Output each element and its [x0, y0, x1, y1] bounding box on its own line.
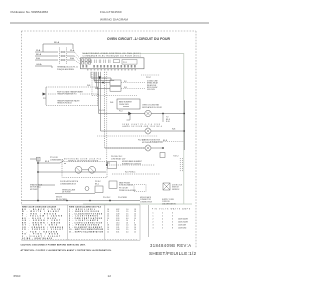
wire BK-B to bus — [150, 142, 184, 151]
connector pin 3 — [61, 55, 63, 57]
svg-text:12: 12 — [108, 274, 112, 278]
svg-text:1: 1 — [153, 213, 154, 215]
svg-text:P1-6 W-C: P1-6 W-C — [103, 197, 111, 199]
svg-text:8: 8 — [172, 225, 173, 227]
svg-text:12: 12 — [107, 231, 109, 233]
conv feed solid part — [105, 147, 145, 149]
bus drop dashed x92 — [91, 72, 93, 96]
fan junction arrow — [128, 112, 131, 116]
connector pin 1 — [61, 51, 63, 53]
transformer dash mid left — [48, 93, 56, 95]
EOC pin row labels — [82, 65, 135, 68]
neutral node 4 — [89, 200, 91, 202]
svg-text:P11: P11 — [43, 98, 46, 100]
transformer connector arrow — [43, 93, 47, 96]
svg-text:P1-4 Y-5: P1-4 Y-5 — [99, 110, 105, 112]
lock cam switch A — [75, 166, 82, 173]
node dot riser 1 — [37, 162, 39, 164]
svg-text:5: 5 — [162, 228, 163, 230]
EOC board box — [81, 58, 145, 69]
wire to lock motor — [38, 162, 60, 164]
lock link wire — [82, 169, 89, 171]
svg-text:5: 5 — [162, 225, 163, 227]
node dot hidden bake — [106, 164, 108, 166]
svg-text:8: 8 — [172, 228, 173, 230]
gauge rows text — [69, 209, 104, 234]
connector pin 6 — [64, 59, 66, 61]
fan drop wire — [162, 114, 164, 123]
cooling fan blades — [146, 112, 150, 116]
svg-text:3: 3 — [172, 213, 173, 215]
bus L2 node dot — [183, 113, 185, 115]
door switch stub — [30, 158, 37, 160]
svg-text:TOD L2: TOD L2 — [173, 156, 179, 158]
wire into lock box — [64, 163, 66, 165]
legend top rule — [21, 204, 140, 206]
svg-text:3.31: 3.31 — [116, 231, 119, 233]
svg-text:P3-2 BK-C W-C: P3-2 BK-C W-C — [111, 156, 123, 158]
DLB relay contact box 1 — [110, 80, 121, 85]
svg-text:WIRING DIAGRAM: WIRING DIAGRAM — [100, 18, 128, 22]
L2 bus dark segment — [183, 100, 185, 150]
lead diagonal 3 — [75, 60, 81, 64]
svg-text:6: 6 — [172, 222, 173, 224]
conv return labels — [111, 156, 126, 160]
door lock switch cross — [163, 183, 170, 190]
svg-text:D'ALIMENTATION: D'ALIMENTATION — [162, 203, 177, 206]
latch circle — [85, 187, 89, 191]
svg-text:6: 6 — [172, 219, 173, 221]
lock switch blade — [60, 161, 64, 163]
fan node dot right — [162, 113, 164, 115]
svg-text:COMMANDE ELECTRONIQUE DU FOUR: COMMANDE ELECTRONIQUE DU FOUR (EOC) — [83, 55, 141, 58]
svg-text:11 - SUPPLY/ALIMENTATION: 11 - SUPPLY/ALIMENTATION — [69, 230, 104, 233]
svg-text:VERROU DE PORTE MOTORISE: VERROU DE PORTE MOTORISE — [68, 161, 99, 163]
bulb filament — [146, 129, 150, 133]
hidden bake dashed row — [107, 164, 155, 166]
svg-text:240V 2500W: 240V 2500W — [178, 222, 188, 224]
lock cam A mark — [76, 168, 80, 172]
svg-text:31848409B REV:A: 31848409B REV:A — [150, 243, 191, 248]
svg-text:2: 2 — [153, 222, 154, 224]
svg-text:W-A: W-A — [70, 49, 75, 52]
svg-text:P/N VOLTS WATTS AMPS: P/N VOLTS WATTS AMPS — [152, 207, 191, 210]
bus wire 3 broil feed — [95, 72, 110, 83]
svg-text:120V 40W: 120V 40W — [178, 225, 186, 227]
lock cam B mark — [90, 168, 94, 172]
bus wire 5 fan — [99, 72, 145, 114]
dashed row 2 — [112, 173, 160, 175]
svg-text:PLAQUE A BORNES: PLAQUE A BORNES — [57, 68, 75, 71]
node dot riser 2 — [37, 171, 39, 173]
thermal fuse body a — [179, 158, 181, 172]
legend divider x104.5 — [104, 205, 106, 240]
wire lower row — [38, 171, 106, 173]
light wire right — [151, 130, 184, 132]
svg-text:P1-7: P1-7 — [103, 78, 106, 80]
legend divider x67.5 — [66, 205, 68, 240]
EOC relay contact ticks — [90, 60, 110, 64]
bus wire 4 broil return — [97, 72, 110, 89]
wire row R-A right — [67, 59, 75, 61]
svg-text:3: 3 — [172, 216, 173, 218]
EOC P1 sub-block — [122, 60, 137, 65]
light return dashed row — [97, 135, 158, 137]
oven chassis bottom light line — [83, 203, 192, 205]
right spec table left border — [148, 205, 150, 237]
bus wire 6 light — [101, 72, 145, 131]
svg-text:3: 3 — [153, 228, 154, 230]
DLB dashed lead 2 — [121, 88, 145, 90]
wire row BK-A mid right — [67, 55, 75, 57]
svg-text:GY/BK - GRAY/BLACK: GY/BK - GRAY/BLACK — [22, 237, 53, 240]
svg-text:4: 4 — [162, 222, 163, 224]
lead diagonal 2 — [75, 56, 81, 62]
svg-text:R-8: R-8 — [124, 81, 127, 83]
gauge numeric columns — [107, 209, 136, 234]
cooling fan motor — [145, 110, 151, 116]
wire L1 top — [43, 44, 73, 52]
transformer right lead — [97, 87, 99, 106]
svg-text:DOUBLE LINE: DOUBLE LINE — [147, 80, 158, 82]
fan wire right — [151, 113, 184, 115]
connector pin 2 — [64, 51, 66, 53]
lock cam switch B — [89, 166, 96, 173]
svg-text:R-A: R-A — [70, 57, 74, 60]
svg-text:TENSION P4 BK-B: TENSION P4 BK-B — [57, 103, 72, 105]
svg-text:OVEN CIRCUIT -1/ CIRCUIT DU FO: OVEN CIRCUIT -1/ CIRCUIT DU FOUR — [107, 37, 171, 41]
neutral node 1 — [37, 200, 39, 202]
svg-text:R-A: R-A — [36, 57, 40, 60]
EOC pin number fringe below — [87, 69, 136, 71]
svg-text:BK-C A TERM: BK-C A TERM — [56, 198, 67, 201]
svg-text:COMMUTATEUR: COMMUTATEUR — [50, 158, 64, 161]
svg-text:BK-A: BK-A — [36, 53, 42, 56]
probe box — [109, 181, 117, 188]
ground symbol chassis — [98, 76, 101, 79]
svg-text:ELEMENT DE CUISSON: ELEMENT DE CUISSON — [122, 163, 142, 165]
door switch component — [37, 157, 41, 161]
svg-text:1: 1 — [153, 216, 154, 218]
svg-text:3: 3 — [153, 225, 154, 227]
small comp box left — [108, 162, 117, 169]
dashed branch to right top — [141, 74, 160, 76]
svg-text:2: 2 — [162, 216, 163, 218]
neutral node 2 — [109, 200, 111, 202]
bus wire 8 dashed — [106, 72, 108, 165]
lead diagonal 1 — [75, 52, 81, 59]
svg-text:FGLGT3045KF: FGLGT3045KF — [100, 10, 122, 14]
color rows — [22, 208, 64, 240]
door lock switch box — [163, 183, 170, 190]
svg-text:12: 12 — [134, 231, 136, 233]
svg-text:ATTENTION: COUPEZ L'ALIMENTATI: ATTENTION: COUPEZ L'ALIMENTATION AVANT L… — [21, 249, 112, 252]
connector P1 left bracket — [59, 48, 61, 65]
ground wire GN — [35, 66, 52, 68]
light node dot — [183, 130, 185, 132]
svg-text:120V 60Hz: 120V 60Hz — [178, 228, 187, 230]
bus vertical broil a — [110, 78, 112, 80]
svg-text:P1-3: P1-3 — [119, 110, 122, 112]
bus wire 7 conv — [105, 72, 145, 148]
svg-text:LAMPE DU FOUR 40W 120V BK-6: LAMPE DU FOUR 40W 120V BK-6 — [122, 125, 162, 128]
svg-text:MOTEUR: MOTEUR — [30, 189, 38, 191]
svg-text:COMMUTATEUR DE: COMMUTATEUR DE — [60, 182, 77, 185]
svg-text:4.0: 4.0 — [126, 231, 128, 233]
connector pin 4 — [64, 55, 66, 57]
thermal fuse body b — [182, 158, 184, 172]
svg-text:GRIL 240V: GRIL 240V — [147, 89, 156, 91]
svg-text:240V 3400W: 240V 3400W — [178, 219, 188, 221]
svg-text:W-9: W-9 — [124, 87, 127, 89]
svg-text:W-C P6 BK-C: W-C P6 BK-C — [125, 172, 136, 174]
svg-text:CAUTION: DISCONNECT POWER BEFO: CAUTION: DISCONNECT POWER BEFORE SERVICI… — [21, 244, 86, 247]
bake relay box — [117, 99, 140, 109]
svg-text:BK-A: BK-A — [54, 41, 60, 44]
bus vertical broil b — [113, 79, 115, 82]
junction dot broil feed — [102, 82, 104, 84]
svg-text:CONNECTEUR: CONNECTEUR — [140, 202, 153, 204]
conv wire right — [151, 147, 163, 149]
motorized door lock dashed box — [62, 162, 107, 178]
legend bottom dashed rule — [21, 238, 138, 240]
wire row W-A — [35, 51, 58, 53]
bus wire 2 — [94, 72, 114, 81]
connector pin 5 — [61, 59, 63, 61]
legend divider x140 — [139, 205, 141, 240]
circuit boundary dashed top — [21, 30, 196, 32]
svg-text:SONDE A VIANDE: SONDE A VIANDE — [119, 184, 134, 187]
conv node dot — [162, 147, 164, 149]
bake relay mark — [123, 106, 129, 108]
svg-text:TRANSFORMATEUR H.V.: TRANSFORMATEUR H.V. — [57, 93, 77, 96]
svg-text:BROIL 3400W: BROIL 3400W — [147, 87, 158, 89]
circuit boundary dashed right — [195, 31, 197, 248]
latch wire row — [55, 193, 95, 195]
lock out wire — [106, 162, 110, 164]
circuit boundary dashed left — [20, 31, 22, 205]
svg-text:VENTILATEUR DU FOUR: VENTILATEUR DU FOUR — [142, 106, 162, 109]
connector P1 right bracket — [66, 48, 68, 65]
oven light bulb — [145, 128, 151, 134]
neutral node 3 — [66, 200, 68, 202]
EOC pin labels left column — [82, 59, 91, 64]
bus wire 1 — [91, 72, 111, 78]
svg-text:2: 2 — [162, 213, 163, 215]
svg-text:GN-A: GN-A — [36, 63, 42, 66]
svg-text:P2 R-7: P2 R-7 — [146, 77, 151, 79]
svg-text:ELECTRONIC OVEN CONTROL OF THE: ELECTRONIC OVEN CONTROL OF THE (EOC) — [83, 53, 141, 55]
svg-text:P1 L1: P1 L1 — [123, 62, 127, 64]
fan drop stub — [127, 114, 131, 121]
wire riser bottom turn — [38, 184, 55, 186]
wire row BK-A mid — [35, 55, 58, 57]
svg-text:2: 2 — [153, 219, 154, 221]
wire row W-A right — [67, 51, 75, 53]
broil labels cluster — [147, 80, 159, 91]
transformer dashed top — [46, 86, 98, 88]
conv marks — [146, 146, 150, 150]
svg-text:R-10: R-10 — [166, 121, 170, 123]
legend bottom rule solid — [21, 239, 140, 241]
transformer dash mid right — [80, 93, 97, 95]
EOC relay K1 — [114, 60, 120, 63]
header rule — [10, 22, 209, 24]
svg-text:Publication No. 5995544853: Publication No. 5995544853 — [11, 10, 49, 14]
latch right box — [95, 186, 103, 193]
svg-text:4: 4 — [162, 219, 163, 221]
svg-text:6510: 6510 — [14, 274, 21, 278]
svg-text:W-A: W-A — [36, 49, 41, 52]
probe dashed box — [134, 185, 146, 192]
svg-text:SHEET/FEUILLE:1/2: SHEET/FEUILLE:1/2 — [149, 251, 196, 256]
TB box — [160, 153, 165, 158]
transformer dashed bottom — [46, 105, 98, 107]
neutral bus bottom — [21, 200, 140, 202]
door switch riser — [37, 158, 39, 201]
svg-text:VERROU: VERROU — [172, 189, 180, 191]
oven chassis outline (light) — [83, 54, 184, 204]
svg-text:P1 A TERM: P1 A TERM — [118, 196, 127, 199]
svg-text:2500W 240V: 2500W 240V — [119, 104, 130, 106]
DLB relay contact box 2 — [110, 87, 121, 92]
wire row R-A — [35, 59, 58, 61]
dashed aux row P4 — [92, 95, 137, 97]
DLB dashed lead 1 — [121, 82, 145, 84]
transformer left lead — [45, 87, 47, 105]
convection motor — [145, 145, 151, 151]
